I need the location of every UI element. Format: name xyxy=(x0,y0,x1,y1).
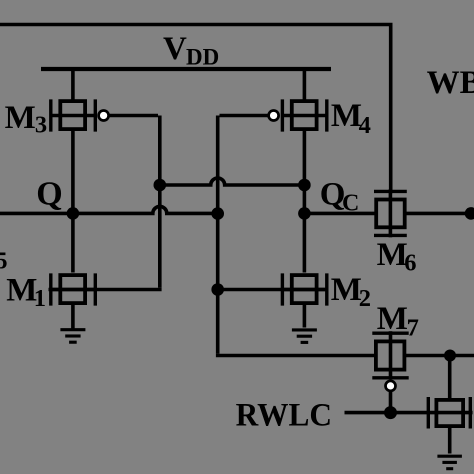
transistor M4 xyxy=(282,69,328,132)
wire RWLC line to M8 gate and M8 mid-line xyxy=(345,411,473,415)
svg-text:C: C xyxy=(342,191,359,217)
svg-text:3: 3 xyxy=(35,112,47,139)
wire vertical A corner to M1 gate xyxy=(49,288,160,290)
svg-text:V: V xyxy=(163,31,187,67)
node VDD rail xyxy=(41,67,331,71)
transistor M6 (horizontal, write access) xyxy=(374,189,407,237)
wire vertical B to M2 gate xyxy=(218,288,329,292)
transistor M7 (horizontal, read buffer) xyxy=(372,331,408,379)
wire M4 gate to vertical B xyxy=(218,116,269,354)
svg-text:M: M xyxy=(5,100,36,136)
wire M8 drain up to M7 output xyxy=(448,356,452,401)
transistor M2 xyxy=(282,273,328,305)
wire M3 drain down through Q to M1 drain xyxy=(71,131,75,273)
bubble on M7 gate xyxy=(386,381,396,391)
wire top border line to WBL gate of M6 xyxy=(0,23,391,194)
node junction dot vertical A / cross line xyxy=(154,179,167,192)
ground below M2 xyxy=(292,330,317,343)
transistor M1 xyxy=(51,273,97,305)
svg-text:2: 2 xyxy=(359,285,371,312)
wire M2 source to ground xyxy=(303,305,307,328)
wire M8 source to ground xyxy=(448,426,452,454)
svg-text:6: 6 xyxy=(404,249,416,276)
node junction dot M4 drain / cross line xyxy=(298,179,311,192)
node junction dot vertical B / Q line xyxy=(211,207,224,220)
node junction dot RWLC / M7 gate xyxy=(384,406,397,419)
svg-text:DD: DD xyxy=(186,45,219,70)
wire node Q horizontal with hop over vertical A xyxy=(0,206,218,213)
wire node QC horizontal to M6 xyxy=(304,212,376,216)
wire M7 gate bubble down to RWLC xyxy=(389,391,393,413)
svg-text:M: M xyxy=(377,301,408,337)
node junction dot M7 output / M8 drain xyxy=(444,350,456,362)
node junction dot M6 right end xyxy=(465,207,474,220)
svg-text:RWLC: RWLC xyxy=(236,397,332,433)
svg-text:1: 1 xyxy=(34,285,46,312)
svg-text:M: M xyxy=(331,98,362,134)
node junction dot QC xyxy=(298,207,311,220)
svg-text:M: M xyxy=(377,237,408,273)
transistor M8 xyxy=(428,397,470,429)
svg-text:7: 7 xyxy=(407,314,419,341)
wire M6 right to RBL dot xyxy=(405,212,472,216)
node junction dot vertical B / M2 gate xyxy=(211,283,224,296)
bubble on M4 gate xyxy=(269,111,279,121)
wire vertical B corner to M7 source xyxy=(218,354,376,356)
svg-text:Q: Q xyxy=(36,176,62,213)
node junction dot Q xyxy=(67,207,80,220)
svg-text:M: M xyxy=(331,272,362,308)
bubble on M3 gate xyxy=(99,111,109,121)
wire M1 source to ground xyxy=(71,305,75,329)
wire cross-coupling QC to gates of M3/M1 xyxy=(160,178,305,185)
svg-text:M: M xyxy=(6,273,37,309)
ground below M8 xyxy=(437,456,462,469)
wire M7 drain to right edge xyxy=(405,354,474,358)
ground below M1 xyxy=(60,330,85,343)
svg-text:5: 5 xyxy=(0,249,8,275)
transistor M3 xyxy=(51,69,97,132)
svg-text:4: 4 xyxy=(359,112,371,139)
wire M4 drain down through QC to M2 drain xyxy=(303,131,307,273)
svg-text:WBL: WBL xyxy=(427,65,474,101)
wire M3 gate to vertical A xyxy=(109,116,160,288)
